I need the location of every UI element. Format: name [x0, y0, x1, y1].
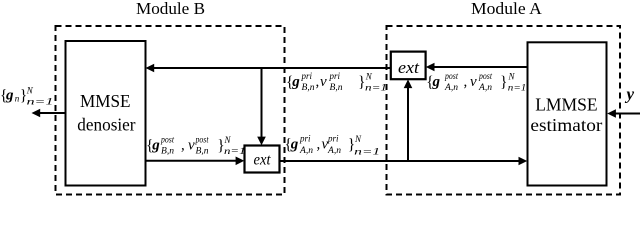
svg-text:y: y [625, 84, 635, 103]
wire y input to LMMSE estimator [615, 113, 640, 115]
wire MMSE denoiser output to ext B [146, 160, 238, 162]
ext block in module B [245, 146, 280, 173]
arrowhead into LMMSE left [519, 157, 528, 166]
svg-text:{gpostA,n,vpostA,n}Nn=1: {gpostA,n,vpostA,n}Nn=1 [426, 71, 526, 93]
MMSE denoiser block [66, 41, 146, 186]
svg-text:MMSE: MMSE [80, 91, 131, 111]
arrowhead into ext B top [257, 137, 266, 146]
svg-text:{gn}Nn=1: {gn}Nn=1 [0, 85, 54, 106]
svg-text:{gpriB,n,vpriB,n}Nn=1: {gpriB,n,vpriB,n}Nn=1 [286, 71, 387, 93]
wire LMMSE output to ext A [433, 66, 528, 68]
svg-text:{gpriA,n,vpriA,n}Nn=1: {gpriA,n,vpriA,n}Nn=1 [285, 134, 381, 157]
svg-text:{gpostB,n,vpostB,n}Nn=1: {gpostB,n,vpostB,n}Nn=1 [146, 135, 246, 157]
module A dashed boundary [387, 26, 621, 195]
wire output of MMSE denoiser to left [40, 112, 66, 114]
svg-text:Module B: Module B [136, 0, 205, 18]
module B dashed boundary [56, 26, 285, 195]
arrowhead left output [32, 109, 41, 118]
arrowhead into ext A right [426, 63, 435, 72]
arrowhead into ext A bottom [404, 79, 413, 88]
wire branch down to ext B [261, 68, 263, 138]
svg-text:denosier: denosier [77, 114, 135, 134]
svg-text:LMMSE: LMMSE [535, 94, 597, 114]
arrowhead into LMMSE right [607, 109, 616, 118]
svg-text:ext: ext [398, 58, 419, 77]
svg-text:estimator: estimator [530, 115, 602, 135]
wire ext A output to MMSE denoiser [154, 67, 391, 69]
wire ext B output to LMMSE estimator [280, 160, 521, 162]
ext block in module A [391, 52, 426, 80]
arrowhead into MMSE denoiser [146, 64, 155, 73]
LMMSE estimator block [528, 42, 607, 185]
svg-text:ext: ext [254, 151, 271, 168]
svg-text:Module A: Module A [471, 0, 543, 18]
arrowhead into ext B left [236, 157, 245, 166]
wire branch up to ext A [407, 87, 409, 162]
